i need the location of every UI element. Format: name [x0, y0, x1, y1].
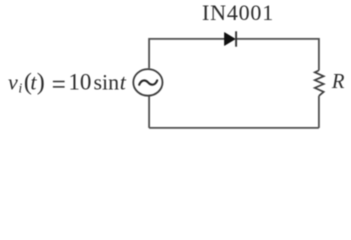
wire from bottom-left corner to source bottom	[148, 96, 150, 128]
AC voltage source	[133, 69, 162, 96]
svg-text:v: v	[8, 70, 18, 95]
label R	[331, 71, 345, 93]
label source voltage v_i(t) = 10 sin t	[8, 70, 127, 97]
svg-text:t: t	[120, 70, 127, 95]
svg-text:R: R	[331, 71, 345, 93]
svg-text:): )	[37, 70, 45, 96]
svg-text:IN4001: IN4001	[202, 0, 274, 25]
label IN4001	[202, 0, 274, 25]
svg-text:i: i	[18, 82, 22, 97]
wire from diode cathode to top-right corner to resistor top	[236, 39, 319, 71]
wire from resistor bottom to bottom-right corner	[318, 96, 320, 128]
resistor R	[315, 70, 324, 96]
diode D1 (IN4001)	[224, 31, 236, 46]
svg-text:10: 10	[68, 70, 91, 95]
bottom wire	[149, 127, 319, 129]
svg-text:sin: sin	[94, 70, 120, 95]
wire from source top to top-left corner to diode anode	[149, 39, 224, 68]
